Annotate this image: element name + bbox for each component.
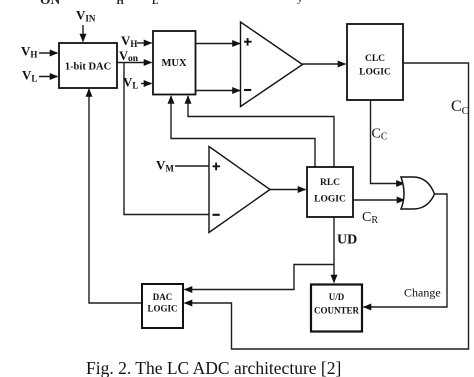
svg-text:VIN: VIN (76, 8, 96, 24)
wire RLC Cr to OR gate bottom input (353, 199, 405, 201)
svg-text:COUNTER: COUNTER (314, 306, 360, 316)
op-amp upper comparator (241, 22, 303, 107)
wire UD branch to DAC LOGIC right top input (185, 265, 335, 290)
svg-text:VH: VH (21, 44, 37, 60)
block RLC LOGIC (307, 167, 353, 217)
wire CLC output feedback: right, down, left, up into DAC LOGIC right bottom input (185, 63, 469, 349)
wire VH into MUX (137, 42, 152, 44)
svg-text:LOGIC: LOGIC (147, 304, 177, 314)
svg-text:DAC: DAC (153, 292, 173, 302)
svg-text:L: L (152, 0, 158, 7)
wire VH into 1-bit DAC left (39, 52, 58, 54)
wire UD from RLC bottom to U/D COUNTER top (333, 217, 335, 283)
wire MUX out to upper comparator minus input (196, 90, 241, 92)
block 1-bit DAC (59, 43, 117, 88)
caption (86, 360, 341, 377)
block DAC LOGIC (142, 284, 183, 328)
svg-text:CR: CR (362, 210, 378, 226)
svg-text:VL: VL (123, 75, 138, 91)
svg-text:y: y (297, 0, 303, 5)
svg-text:1-bit DAC: 1-bit DAC (65, 62, 111, 73)
wire CLC Cc down to OR gate top input (371, 100, 405, 184)
svg-text:U/D: U/D (329, 292, 345, 302)
svg-text:VL: VL (22, 68, 37, 84)
wire RLC select line 1 to MUX bottom (171, 96, 315, 167)
svg-text:CLC: CLC (365, 54, 385, 64)
OR gate (401, 177, 435, 209)
svg-text:H: H (117, 0, 125, 7)
svg-text:VM: VM (156, 158, 174, 174)
wire lower comparator output to RLC LOGIC (270, 189, 306, 191)
wire VL into MUX (141, 83, 152, 85)
wire upper comparator output to CLC LOGIC (303, 63, 346, 65)
wire DAC LOGIC left output up into 1-bit DAC bottom (89, 89, 142, 303)
wire VM into lower comparator plus input (175, 165, 209, 167)
svg-text:VH: VH (121, 33, 137, 49)
svg-text:Change: Change (404, 286, 441, 300)
wire RLC select line 2 to MUX bottom (188, 96, 334, 167)
wire VL into 1-bit DAC left (39, 76, 58, 78)
block CLC LOGIC (347, 24, 403, 100)
svg-text:Von: Von (119, 49, 139, 64)
svg-text:CC: CC (451, 98, 469, 117)
svg-text:ON: ON (40, 0, 61, 7)
svg-text:LOGIC: LOGIC (314, 195, 346, 205)
block U/D COUNTER (311, 285, 362, 332)
wire OR gate output down to U/D COUNTER right (Change) (364, 194, 448, 307)
wire Von tap down to lower comparator minus input (124, 63, 209, 215)
wire Vin arrow into 1-bit DAC top (82, 25, 84, 42)
block MUX (153, 31, 196, 95)
svg-text:MUX: MUX (161, 58, 186, 69)
wire Von from 1-bit DAC to MUX (117, 62, 152, 64)
svg-text:CC: CC (372, 127, 388, 143)
wire MUX out to upper comparator plus input (196, 43, 241, 45)
svg-text:UD: UD (337, 233, 357, 248)
svg-text:LOGIC: LOGIC (359, 68, 391, 78)
svg-text:RLC: RLC (320, 178, 340, 188)
op-amp lower comparator (209, 147, 270, 233)
cropped text fragments at top edge (40, 0, 303, 7)
